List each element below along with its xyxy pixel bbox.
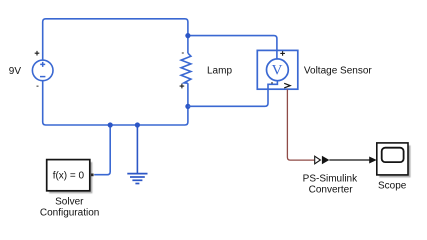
wire lamp bottom lead (187, 83, 189, 106)
svg-text:Converter: Converter (309, 185, 354, 196)
svg-text:9V: 9V (9, 66, 22, 77)
resistor Lamp (zigzag) (181, 53, 191, 83)
voltage sensor meter circle (267, 59, 289, 81)
physical signal wire from sensor to converter (dark red) (287, 89, 314, 160)
voltage source internal + mark (40, 62, 45, 67)
solver configuration block (47, 160, 90, 191)
wire lamp top lead (187, 36, 189, 54)
scope block shadow (379, 145, 410, 177)
svg-text:V: V (272, 62, 283, 78)
voltage source internal - mark (40, 76, 45, 78)
lamp - polarity tick (182, 52, 184, 53)
lamp + polarity mark (180, 84, 185, 89)
svg-text:Voltage Sensor: Voltage Sensor (304, 66, 372, 77)
wire from source + terminal over top rail down to node A (43, 19, 188, 60)
voltage source 9V (circle symbol) (32, 60, 53, 81)
svg-text:Configuration: Configuration (40, 208, 99, 219)
node A junction dot (185, 33, 190, 38)
voltage source + port mark (35, 51, 40, 56)
ground (electrical reference) (127, 174, 147, 184)
voltage sensor internal wire from top edge to meter (276, 50, 278, 59)
PS-Simulink converter output triangle (filled) (322, 156, 329, 165)
svg-text:Scope: Scope (378, 181, 407, 192)
PS-Simulink converter input triangle (open) (315, 156, 321, 164)
svg-text:f(x) = 0: f(x) = 0 (53, 171, 85, 182)
solver configuration block shadow (49, 162, 92, 193)
voltage sensor - pin mark (271, 82, 273, 83)
svg-text:Solver: Solver (55, 196, 84, 207)
node D junction dot (135, 122, 140, 127)
voltage source - port mark (37, 86, 39, 87)
voltage sensor U1 block outline (257, 50, 298, 89)
svg-text:PS-Simulink: PS-Simulink (303, 174, 358, 185)
wire ground branch from node D (136, 125, 138, 173)
simulink signal line converter to scope (329, 159, 370, 161)
voltage sensor PS output port mark > (284, 83, 290, 88)
svg-text:Lamp: Lamp (207, 65, 232, 76)
wire sensor - output step down and left to node B (188, 81, 278, 107)
node B junction dot (185, 104, 190, 109)
node C junction dot (108, 122, 113, 127)
solver configuration right port nub (91, 174, 94, 177)
scope block (377, 143, 408, 175)
signal arrowhead at scope input (369, 157, 377, 164)
wire node B down to bottom rail and left to source - terminal (43, 81, 188, 125)
wire node A to voltage sensor + input (188, 36, 277, 51)
wire solver branch from node C down to solver port (94, 125, 110, 175)
voltage sensor + pin mark (280, 51, 285, 56)
scope screen icon (382, 148, 404, 162)
